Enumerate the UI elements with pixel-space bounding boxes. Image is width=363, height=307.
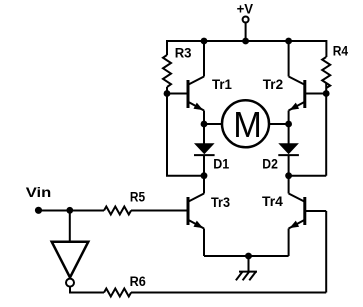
node motor right dot (285, 121, 292, 128)
wire bus to R3 (166, 40, 168, 55)
wire R5 to Tr3 base (131, 210, 187, 212)
transistor Tr1 (167, 77, 204, 111)
Vin terminal dot (35, 207, 42, 214)
wire motor left (204, 123, 222, 125)
node D2 junction dot (285, 172, 292, 179)
wire motor node to D1 (203, 124, 205, 144)
wire Tr3 emitter down (203, 229, 205, 257)
svg-text:R5: R5 (130, 190, 146, 205)
svg-text:D1: D1 (213, 157, 229, 172)
wire Tr3 collector up (203, 176, 205, 194)
svg-text:R3: R3 (175, 46, 192, 61)
resistor R4 (322, 57, 330, 88)
inverter U1 (52, 242, 89, 287)
+V terminal circle (243, 17, 249, 23)
junction dot bus left (201, 38, 208, 45)
wire D2 to junction (288, 155, 290, 176)
svg-text:D2: D2 (262, 157, 278, 172)
junction dot bus center (242, 38, 249, 45)
ground (236, 256, 257, 280)
svg-text:Vin: Vin (26, 185, 52, 200)
wire Vin junction to inverter (69, 211, 71, 242)
svg-text:+V: +V (237, 1, 254, 16)
wire Vin to R5 (39, 210, 105, 212)
wire left rail to D1 node (166, 175, 204, 177)
wire motor node to D2 (288, 124, 290, 144)
node Tr2 base junction dot (323, 90, 330, 97)
node motor left dot (201, 121, 208, 128)
diode D2 (278, 143, 299, 155)
resistor R5 (104, 207, 131, 215)
node D1 junction dot (201, 172, 208, 179)
wire Tr4 emitter down (288, 229, 290, 257)
transistor Tr2 (289, 77, 327, 111)
wire R6 to Tr4 base rail (131, 292, 326, 294)
wire motor right (269, 123, 289, 125)
node emitter bus dot (245, 253, 252, 260)
wire bus to R4 (325, 40, 327, 57)
wire inverter to R6 (70, 287, 104, 293)
wire top supply bus (167, 40, 326, 42)
wire R4 to base node (325, 83, 327, 94)
wire Tr4 collector up (288, 176, 290, 194)
junction dot bus right (285, 38, 292, 45)
motor M (222, 100, 269, 147)
svg-text:R6: R6 (130, 274, 147, 289)
wire Tr4 base right rail down to R6 (325, 211, 327, 293)
wire R3 to base node (166, 87, 168, 94)
wire right rail to D2 node (289, 175, 327, 177)
svg-text:Tr2: Tr2 (263, 77, 283, 92)
wire right rail down (325, 94, 327, 176)
wire Tr2 collector to bus (288, 41, 290, 77)
wire left rail down (166, 94, 168, 176)
svg-text:M: M (233, 104, 262, 145)
wire +V to bus (245, 23, 247, 42)
wire Tr1 emitter to motor node (203, 111, 205, 125)
wire D1 to junction (203, 155, 205, 176)
resistor R3 (163, 55, 171, 87)
svg-text:Tr4: Tr4 (262, 194, 283, 209)
svg-text:R4: R4 (333, 44, 349, 59)
svg-text:Tr1: Tr1 (212, 77, 232, 92)
svg-text:Tr3: Tr3 (211, 195, 230, 210)
diode D1 (194, 143, 215, 155)
node Vin junction dot (66, 207, 73, 214)
wire Tr2 emitter to motor node (288, 111, 290, 125)
transistor Tr4 (289, 194, 327, 229)
transistor Tr3 (188, 194, 204, 229)
resistor R6 (104, 289, 131, 297)
wire emitter bus (204, 255, 289, 257)
wire Tr1 collector to bus (203, 41, 205, 77)
node Tr1 base junction dot (164, 90, 171, 97)
